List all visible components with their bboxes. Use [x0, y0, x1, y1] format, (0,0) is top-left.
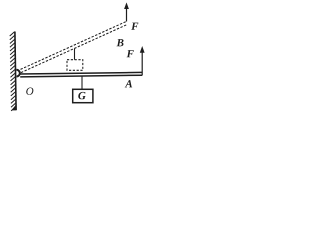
- wall bottom wedge: [11, 104, 16, 110]
- label A: [125, 80, 132, 87]
- beam OA top line: [20, 72, 142, 74]
- label B: [116, 39, 123, 46]
- force arrow F at B (head): [124, 2, 129, 9]
- force arrow F at A (shaft): [141, 51, 143, 76]
- dashed box (old position of load): [67, 60, 83, 71]
- pivot knob at O: [16, 70, 19, 77]
- box G: [73, 89, 93, 102]
- label F at right arrow: [127, 50, 134, 57]
- hanger from lever OB to dashed box: [74, 49, 76, 60]
- label G: [78, 92, 85, 99]
- wall hatching: [10, 32, 16, 111]
- lever OB upper dashed line: [21, 21, 127, 69]
- force arrow F at A (head): [140, 46, 145, 53]
- wall vertical line: [15, 32, 16, 111]
- force arrow F at B (shaft): [126, 7, 128, 22]
- label F at top arrow: [131, 23, 138, 30]
- label O: [26, 88, 33, 95]
- lever OB lower dashed line: [21, 25, 127, 73]
- beam OA bottom line: [20, 75, 142, 77]
- hanger from beam to box G: [81, 76, 83, 89]
